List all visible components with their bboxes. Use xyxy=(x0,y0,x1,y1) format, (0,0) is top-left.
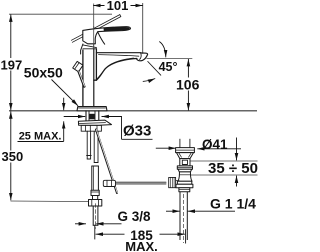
svg-text:G 1 1/4: G 1 1/4 xyxy=(210,196,256,212)
svg-text:G 3/8: G 3/8 xyxy=(118,209,152,224)
svg-text:25 MAX.: 25 MAX. xyxy=(19,130,62,142)
svg-text:197: 197 xyxy=(1,58,23,73)
svg-text:MAX.: MAX. xyxy=(125,239,158,252)
svg-text:45°: 45° xyxy=(159,60,178,74)
svg-text:35 ÷ 50: 35 ÷ 50 xyxy=(208,160,258,177)
svg-text:101: 101 xyxy=(107,0,129,13)
svg-text:Ø41: Ø41 xyxy=(202,137,228,152)
svg-text:50x50: 50x50 xyxy=(24,64,63,80)
svg-text:Ø33: Ø33 xyxy=(123,123,151,140)
svg-text:350: 350 xyxy=(2,149,24,164)
svg-text:106: 106 xyxy=(176,77,200,93)
